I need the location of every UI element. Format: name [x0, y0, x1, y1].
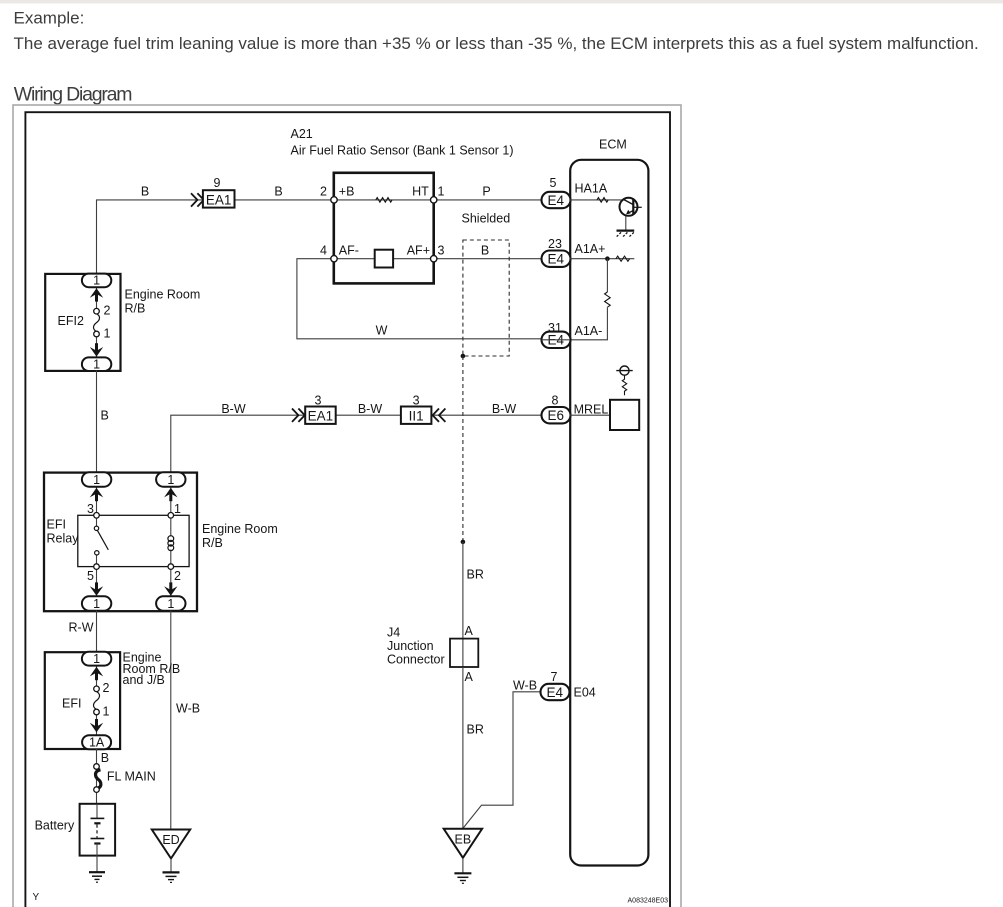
svg-text:1: 1	[93, 597, 100, 611]
svg-text:2: 2	[174, 569, 181, 583]
svg-text:+B: +B	[339, 185, 355, 199]
MREL coil squiggle	[622, 375, 626, 395]
sensor cell square	[375, 250, 393, 268]
relay down arrow left	[90, 586, 103, 596]
shield dashed box	[463, 240, 509, 356]
svg-text:E4: E4	[548, 252, 565, 267]
svg-text:BR: BR	[467, 723, 484, 737]
svg-text:B-W: B-W	[492, 402, 517, 416]
shield drain dashed wire down	[462, 356, 464, 542]
wire B-W run: relay pill corner across to ECM pin 8	[171, 415, 542, 472]
svg-text:1: 1	[103, 705, 110, 719]
MREL internal wire	[570, 414, 610, 416]
A1A+ internal wire	[570, 258, 634, 260]
EFI2 internal wire bottom	[96, 334, 98, 361]
svg-text:1: 1	[167, 597, 174, 611]
HA1A internal wire	[570, 199, 624, 201]
junction dot shield corner	[461, 354, 466, 359]
svg-text:8: 8	[552, 393, 559, 407]
svg-text:B-W: B-W	[221, 402, 246, 416]
ED ground triangle	[152, 830, 190, 859]
EFI2 relay block box	[45, 274, 120, 371]
internal wire down from junction	[606, 259, 608, 292]
svg-text:Engine Room: Engine Room	[202, 522, 278, 536]
top gray strip	[0, 0, 1003, 4]
sensor pin circle 4	[331, 256, 337, 262]
svg-text:1: 1	[93, 358, 100, 372]
Engine Room R/B label (EFI2)	[125, 287, 201, 315]
battery plate long bottom	[91, 838, 105, 840]
svg-text:Y: Y	[33, 892, 40, 903]
svg-text:MREL: MREL	[574, 403, 609, 417]
relay pin 2 circle	[168, 564, 174, 570]
svg-text:A1A-: A1A-	[575, 324, 603, 338]
outer gray border box	[13, 105, 681, 907]
svg-text:1: 1	[93, 652, 100, 666]
wire W-B: relay to ED ground	[170, 611, 172, 830]
relay coil	[168, 536, 174, 551]
EB wire to ground	[462, 858, 464, 874]
EFI relay outer box	[44, 473, 197, 612]
EFI2 bottom pill 1	[82, 357, 111, 371]
svg-text:P: P	[482, 185, 490, 199]
svg-text:A21: A21	[291, 127, 313, 141]
EB ground symbol	[454, 873, 471, 883]
sensor pin circle 2	[331, 197, 337, 203]
relay inner box	[78, 515, 189, 566]
battery internal bottom wire to ground	[96, 844, 98, 873]
svg-text:31: 31	[548, 321, 562, 335]
sensor pin circle 1	[431, 197, 437, 203]
svg-text:HA1A: HA1A	[575, 182, 608, 196]
svg-text:W: W	[376, 324, 388, 338]
svg-text:1: 1	[104, 327, 111, 341]
relay switch blade	[98, 531, 109, 550]
relay internal wire left lower	[96, 555, 98, 600]
ED wire to ground	[170, 859, 172, 873]
svg-text:3: 3	[413, 394, 420, 408]
EB ground triangle	[444, 829, 482, 858]
wire B: EFI2 top pill up and across to sensor pin +B	[97, 200, 335, 275]
diagram black frame	[25, 112, 670, 907]
svg-text:Battery: Battery	[35, 819, 75, 833]
svg-text:W-B: W-B	[176, 702, 200, 716]
svg-text:B: B	[101, 751, 109, 765]
chevrons &gt;&gt; before EA1 (middle)	[292, 409, 305, 422]
svg-text:4: 4	[320, 243, 327, 257]
relay pin 3 circle	[94, 513, 100, 519]
internal wire to A1A-	[570, 307, 607, 340]
battery plate short bottom	[94, 842, 100, 844]
EFI internal wire bottom	[96, 712, 98, 738]
svg-text:7: 7	[551, 670, 558, 684]
sensor internal heater wire	[334, 199, 434, 201]
FL MAIN fusible link symbol	[96, 770, 101, 789]
svg-text:2: 2	[104, 304, 111, 318]
relay top-right pill 1	[156, 472, 185, 487]
EFI bottom pill 1A	[82, 735, 111, 749]
FL MAIN top circle	[94, 764, 100, 770]
wire P: sensor pin HT to ECM pin 5	[434, 199, 542, 201]
battery ground symbol	[89, 872, 105, 882]
svg-text:ECM: ECM	[599, 138, 627, 152]
MREL driver box	[610, 400, 639, 430]
Engine Room R/B label (relay)	[202, 522, 278, 550]
wire B: EFI to battery	[96, 749, 98, 804]
battery plate long top	[91, 817, 105, 819]
svg-text:1: 1	[93, 273, 100, 287]
junction dot drain bottom	[461, 540, 466, 545]
EFI fuse squiggle	[94, 692, 100, 710]
ECM box	[570, 160, 648, 866]
svg-text:R/B: R/B	[125, 301, 146, 315]
wire B: EFI2 to EFI relay	[96, 371, 98, 474]
svg-text:A083248E03: A083248E03	[628, 897, 669, 904]
relay bottom-right pill 1	[156, 596, 185, 611]
svg-text:AF+: AF+	[407, 243, 430, 257]
connector EA1 (middle) box	[305, 407, 336, 424]
svg-text:1: 1	[167, 473, 174, 487]
svg-text:Junction: Junction	[387, 639, 434, 653]
chevrons &lt;&lt; after II1	[433, 409, 446, 422]
ECM pin oval E4-31	[542, 332, 571, 348]
relay switch contact top circle	[94, 526, 98, 530]
svg-text:W-B: W-B	[513, 679, 537, 693]
EFI pin circle 2	[94, 686, 100, 692]
connector chevrons &gt;&gt; before EA1 (top)	[191, 193, 204, 206]
EFI2 up arrow	[90, 288, 103, 298]
junction dot A1A+	[605, 256, 610, 261]
svg-text:1: 1	[174, 502, 181, 516]
relay pin 1 circle	[168, 513, 174, 519]
J4 junction connector box	[450, 639, 478, 667]
svg-text:Relay: Relay	[47, 532, 80, 546]
battery plate short top	[94, 822, 100, 824]
svg-text:B: B	[141, 185, 149, 199]
internal resistor vertical	[605, 292, 611, 307]
EFI fuse block box	[45, 652, 120, 749]
svg-text:HT: HT	[412, 185, 429, 199]
sensor internal cell wire	[334, 258, 434, 260]
relay top-left pill 1	[82, 472, 111, 487]
J4 junction connector label	[387, 626, 445, 667]
svg-text:J4: J4	[387, 626, 400, 640]
wire R-W: relay to EFI fuse	[96, 611, 98, 653]
EFI2 pin circle 1	[94, 331, 100, 337]
FL MAIN bottom circle	[94, 787, 100, 793]
svg-text:B: B	[481, 243, 489, 257]
EFI down arrow	[90, 723, 103, 733]
svg-text:Air Fuel Ratio Sensor (Bank 1: Air Fuel Ratio Sensor (Bank 1 Sensor 1)	[291, 144, 514, 158]
battery internal top wire	[96, 804, 98, 819]
EFI internal wire top	[96, 662, 98, 687]
EFI2 down arrow	[90, 347, 103, 357]
svg-text:EFI2: EFI2	[58, 314, 84, 328]
svg-text:B: B	[101, 409, 109, 423]
svg-text:ED: ED	[162, 833, 179, 847]
relay internal wire left	[96, 483, 98, 526]
svg-text:3: 3	[87, 502, 94, 516]
svg-text:5: 5	[550, 176, 557, 190]
wire BR: J4 to EB ground	[462, 667, 464, 830]
svg-text:E4: E4	[548, 193, 565, 208]
svg-text:II1: II1	[409, 409, 424, 424]
relay switch contact bottom circle	[95, 551, 99, 555]
Engine Room R/B and J/B label	[123, 651, 181, 688]
svg-text:9: 9	[214, 176, 221, 190]
svg-text:1: 1	[93, 473, 100, 487]
EFI pin circle 1	[94, 709, 100, 715]
EFI up arrow	[90, 667, 103, 677]
svg-text:FL MAIN: FL MAIN	[107, 770, 156, 784]
A1A- stub wire	[542, 339, 571, 341]
svg-text:BR: BR	[467, 568, 484, 582]
wire W: sensor pin AF- around to ECM pin 31	[297, 259, 542, 339]
svg-text:EFI: EFI	[47, 518, 66, 532]
transistor emitter wire	[625, 216, 627, 230]
relay bottom-left pill 1	[82, 596, 111, 611]
svg-text:2: 2	[320, 185, 327, 199]
svg-text:23: 23	[548, 237, 562, 251]
svg-text:Connector: Connector	[387, 653, 445, 667]
svg-text:A: A	[465, 670, 474, 684]
svg-text:3: 3	[315, 394, 322, 408]
wire BR: drain to J4 junction connector	[462, 542, 464, 667]
svg-text:A: A	[465, 624, 474, 638]
connector II1 box	[401, 407, 432, 424]
EFI Relay label	[47, 518, 80, 546]
EFI2 pin circle 2	[94, 308, 100, 314]
svg-text:Engine Room: Engine Room	[125, 287, 201, 301]
svg-text:R-W: R-W	[69, 621, 94, 635]
svg-text:EA1: EA1	[206, 192, 232, 207]
wire W-B: ECM pin 7 to EB ground	[463, 692, 542, 829]
heater resistor	[376, 198, 392, 203]
svg-text:E4: E4	[547, 685, 564, 700]
HA1A resistor	[597, 198, 608, 203]
EFI2 top pill 1	[82, 273, 111, 287]
relay internal wire right	[170, 483, 172, 537]
relay down arrow right	[164, 586, 177, 596]
svg-text:B-W: B-W	[358, 402, 383, 416]
svg-text:E6: E6	[548, 408, 565, 423]
svg-text:and J/B: and J/B	[123, 673, 165, 687]
svg-text:The average fuel trim leaning: The average fuel trim leaning value is m…	[14, 34, 979, 53]
svg-text:AF-: AF-	[339, 243, 359, 257]
ECM pin oval E6-8	[542, 407, 571, 423]
relay up arrow left	[90, 488, 103, 498]
svg-text:R/B: R/B	[202, 536, 223, 550]
relay pin 5 circle	[94, 564, 100, 570]
transistor Q1	[620, 198, 642, 216]
ED ground symbol	[163, 872, 180, 882]
svg-text:B: B	[274, 185, 282, 199]
svg-text:Wiring Diagram: Wiring Diagram	[14, 83, 132, 105]
svg-text:EFI: EFI	[62, 697, 81, 711]
battery dashed link	[96, 825, 98, 838]
battery box	[80, 804, 116, 856]
transistor chassis ground	[616, 231, 634, 238]
svg-text:EB: EB	[455, 833, 472, 847]
sensor pin circle 3	[431, 256, 437, 262]
svg-text:A1A+: A1A+	[575, 242, 606, 256]
ECM pin oval E4-5	[542, 192, 571, 208]
ECM pin oval E4-7	[541, 684, 570, 700]
ECM pin oval E4-23	[542, 251, 571, 267]
EFI top pill 1	[82, 652, 111, 666]
wire B shielded: sensor pin AF+ to ECM pin 23	[434, 258, 542, 260]
MREL power symbol circle	[616, 366, 632, 375]
sensor A21 box	[334, 173, 434, 284]
EFI2 fuse squiggle	[94, 314, 100, 332]
EFI2 internal wire top	[96, 283, 98, 309]
A1A+ internal resistor	[616, 256, 630, 261]
svg-text:Example:: Example:	[14, 8, 85, 27]
svg-text:1A: 1A	[89, 735, 105, 749]
connector EA1 (top) box	[203, 190, 235, 207]
svg-text:EA1: EA1	[308, 409, 334, 424]
svg-text:5: 5	[87, 569, 94, 583]
relay up arrow right	[164, 488, 177, 498]
svg-text:2: 2	[103, 681, 110, 695]
svg-text:1: 1	[438, 185, 445, 199]
svg-text:E04: E04	[574, 686, 596, 700]
svg-text:3: 3	[438, 243, 445, 257]
svg-text:Shielded: Shielded	[462, 211, 511, 225]
relay internal wire right lower	[170, 550, 172, 601]
